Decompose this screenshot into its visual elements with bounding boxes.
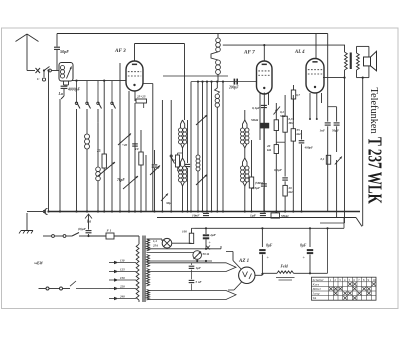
variable capacitor C-ant bbox=[67, 67, 72, 79]
wire AL4 top bbox=[315, 34, 317, 59]
wire spk bottom bbox=[357, 77, 369, 79]
HV loop B bbox=[148, 291, 236, 300]
x mark bbox=[206, 246, 210, 250]
resistor R8 bbox=[275, 103, 277, 120]
wire v112 bbox=[111, 109, 113, 212]
svg-text:T 237 WLK: T 237 WLK bbox=[364, 137, 386, 204]
svg-text:AF 3: AF 3 bbox=[114, 48, 126, 54]
wire grid AF3 bbox=[72, 80, 126, 82]
hum pot 50Ohm bbox=[147, 252, 195, 254]
wire AF3 cathode stub bbox=[143, 83, 153, 85]
wire anode drop bbox=[184, 44, 186, 121]
switch S1 bbox=[76, 81, 78, 102]
resistor 55kOhm-b bbox=[271, 213, 280, 218]
tap 125 bbox=[118, 271, 136, 273]
wire spk top bbox=[357, 45, 369, 47]
switch S5 bbox=[274, 107, 281, 115]
trimmer T4 bbox=[150, 166, 160, 176]
wire AF7 grid bbox=[191, 81, 257, 83]
svg-text:25: 25 bbox=[96, 149, 101, 153]
coil L1 windings bbox=[60, 66, 64, 70]
wire lamp right bbox=[172, 242, 192, 244]
resistor 0.2MOhm bbox=[326, 155, 330, 164]
svg-text:0,7: 0,7 bbox=[296, 93, 300, 97]
svg-text:10: 10 bbox=[372, 278, 376, 282]
svg-text:(8)µF: (8)µF bbox=[78, 227, 87, 231]
wire v162 bbox=[161, 100, 163, 212]
svg-text:200pF: 200pF bbox=[228, 86, 239, 90]
svg-text:Lang: Lang bbox=[312, 292, 320, 296]
wire heater h1 bbox=[147, 248, 222, 250]
resistor 20kOhm bbox=[275, 142, 277, 144]
tap 110 bbox=[118, 262, 136, 264]
wire mid bus bbox=[163, 75, 228, 77]
svg-text:0,1µF: 0,1µF bbox=[274, 168, 283, 172]
wire AF7 pin2 bbox=[263, 93, 265, 212]
capacitor 50uF bbox=[336, 107, 338, 122]
resistor 10kOhm bbox=[140, 130, 142, 152]
capacitor 5nF-b bbox=[189, 279, 195, 281]
wire v198 bbox=[197, 82, 199, 155]
svg-text:Kurz: Kurz bbox=[312, 282, 320, 286]
wire h112 bbox=[328, 106, 337, 108]
svg-text:1µF: 1µF bbox=[196, 266, 202, 270]
trimmer T1 bbox=[98, 162, 115, 176]
svg-text:25A: 25A bbox=[152, 244, 158, 248]
svg-text:La: La bbox=[58, 92, 63, 96]
capacitor 1uF bbox=[260, 212, 266, 214]
wire v153 bbox=[152, 84, 154, 212]
resistor 100Ohm bbox=[189, 233, 193, 243]
wire v48 bbox=[48, 71, 50, 212]
capacitor 4uF bbox=[203, 234, 209, 236]
trimmer T3 bbox=[161, 194, 168, 202]
tube AF3 bbox=[126, 61, 143, 91]
coil can L1 bbox=[59, 63, 73, 82]
wire feld right bbox=[294, 272, 328, 274]
secondary w3 bbox=[147, 269, 150, 287]
field coil Feld bbox=[277, 271, 294, 273]
wire v223 bbox=[222, 82, 224, 212]
switch position table bbox=[312, 277, 377, 300]
svg-text:0,5µF: 0,5µF bbox=[252, 186, 261, 190]
loudspeaker bbox=[364, 57, 371, 66]
output transformer secondary bbox=[357, 53, 360, 70]
svg-text:AF 7: AF 7 bbox=[243, 50, 255, 56]
svg-text:50pF: 50pF bbox=[60, 49, 69, 54]
tube AL4 bbox=[306, 59, 324, 94]
wire right edge bbox=[362, 78, 364, 226]
output transformer core bbox=[350, 53, 352, 70]
resistor R10b bbox=[283, 185, 287, 196]
capacitor 5nF-a bbox=[189, 265, 195, 267]
svg-text:150: 150 bbox=[120, 276, 125, 280]
capacitor 0.1uF-b bbox=[284, 142, 286, 176]
svg-text:1µF: 1µF bbox=[250, 214, 257, 218]
IF coil pair L9 bbox=[243, 158, 245, 166]
svg-text:5 nF: 5 nF bbox=[196, 280, 203, 284]
wire v207 bbox=[206, 82, 208, 212]
wire lamp top bbox=[147, 238, 163, 240]
capacitor 4000pF bbox=[63, 81, 65, 85]
svg-text:110: 110 bbox=[120, 258, 125, 262]
svg-text:0,1µF: 0,1µF bbox=[252, 106, 261, 110]
resistor Rg bbox=[293, 85, 295, 90]
wire v171 bbox=[170, 100, 172, 212]
wire AZ1 anode1 bbox=[233, 261, 242, 270]
svg-text:1,4: 1,4 bbox=[153, 239, 157, 243]
svg-text:8µF: 8µF bbox=[300, 244, 307, 248]
svg-text:10: 10 bbox=[135, 147, 139, 151]
secondary w2 bbox=[147, 255, 150, 268]
svg-text:4000pF: 4000pF bbox=[67, 88, 80, 92]
svg-text:Schalter: Schalter bbox=[313, 278, 325, 282]
node La bbox=[63, 89, 65, 96]
svg-text:kΩ: kΩ bbox=[289, 190, 294, 194]
svg-text:kΩ: kΩ bbox=[267, 148, 272, 152]
wire v76 bbox=[76, 109, 78, 212]
trimmer T2 bbox=[118, 134, 131, 146]
wire B+ rail bbox=[344, 78, 346, 216]
capacitor 8uF-a bbox=[85, 214, 92, 219]
resistor 25kOhm-g bbox=[103, 81, 105, 154]
svg-text:Feld: Feld bbox=[281, 265, 288, 269]
osc coil L6b bbox=[216, 81, 218, 88]
IF coil pair L4 bbox=[181, 120, 183, 128]
svg-text:25+25: 25+25 bbox=[136, 95, 146, 99]
svg-text:50kΩ: 50kΩ bbox=[251, 118, 259, 122]
terminal Ca bbox=[43, 71, 45, 77]
capacitor 8uF-2 bbox=[309, 228, 311, 247]
svg-text:8µF: 8µF bbox=[266, 244, 273, 248]
coil L2 bbox=[86, 109, 88, 134]
trimmer T7 bbox=[335, 157, 342, 165]
resistor R-IF bbox=[178, 152, 183, 154]
svg-text:4µF: 4µF bbox=[209, 233, 217, 237]
wire right loop bbox=[327, 228, 329, 273]
svg-text:kΩ: kΩ bbox=[297, 132, 302, 136]
wire AF7 pin3 bbox=[268, 93, 270, 105]
capacitor 400pF bbox=[299, 140, 305, 142]
svg-text:50µF: 50µF bbox=[332, 129, 340, 133]
capacitor 8uF-1 bbox=[261, 228, 263, 247]
switch S3 bbox=[97, 81, 99, 102]
svg-text:0,1: 0,1 bbox=[172, 158, 176, 162]
trimmer T6 bbox=[196, 175, 207, 186]
heater loop A bbox=[148, 263, 236, 272]
switch arrow bbox=[70, 281, 76, 286]
secondary w4 bbox=[147, 290, 150, 301]
wire AL4 pin3 bbox=[321, 93, 323, 103]
bus chassis bbox=[48, 211, 361, 213]
svg-text:F 1: F 1 bbox=[107, 229, 112, 233]
wire screen link bbox=[323, 77, 345, 79]
tap 240 bbox=[118, 298, 136, 300]
bus 2 bbox=[157, 217, 356, 219]
osc coil L6 bbox=[217, 34, 219, 39]
wire v191 bbox=[190, 82, 192, 212]
svg-text:30µ: 30µ bbox=[165, 201, 171, 205]
capacitor 1nF bbox=[327, 34, 329, 122]
resistor R7 bbox=[251, 140, 253, 177]
svg-text:10nF: 10nF bbox=[192, 214, 200, 218]
svg-text:50 Ω: 50 Ω bbox=[203, 252, 210, 256]
wire osc to output bbox=[223, 44, 345, 46]
dial lamp bbox=[162, 238, 172, 248]
tap 220 bbox=[118, 288, 136, 290]
wire AZ1 cathode bbox=[234, 282, 242, 291]
wire antenna to switch bbox=[27, 70, 35, 72]
capacitor 200pF bbox=[234, 79, 236, 85]
svg-text:1nF: 1nF bbox=[320, 129, 326, 133]
wire AF7 pin1 bbox=[259, 93, 261, 140]
junction dots bus bbox=[47, 210, 49, 212]
potentiometer 50kOhm bbox=[260, 123, 269, 129]
svg-text:400pF: 400pF bbox=[304, 146, 314, 150]
svg-text:AL 4: AL 4 bbox=[294, 50, 305, 55]
svg-text:125: 125 bbox=[120, 267, 125, 271]
wire feld left bbox=[255, 274, 262, 276]
wire AF7 anode bbox=[263, 45, 265, 61]
svg-text:0,1: 0,1 bbox=[321, 157, 325, 161]
capacitor 10nF bbox=[203, 212, 209, 214]
wire v146 bbox=[145, 155, 147, 212]
capacitor 0.5uF bbox=[261, 183, 267, 185]
wire AL4 pin2 bbox=[316, 93, 318, 119]
wire AF3 anode bbox=[134, 44, 136, 62]
svg-text:220: 220 bbox=[119, 284, 125, 288]
capacitor C7 bbox=[187, 120, 189, 163]
capacitor 0.1uF bbox=[261, 104, 267, 106]
fuse F1 bbox=[89, 235, 107, 237]
resistor 0.3MOhm bbox=[284, 95, 286, 116]
ground main bbox=[26, 213, 28, 230]
tap 150 bbox=[118, 279, 136, 281]
svg-text:100: 100 bbox=[182, 230, 187, 234]
wire switch to coil bbox=[51, 70, 59, 72]
wire AF3 pin1 bbox=[128, 91, 130, 212]
capacitor C5 bbox=[154, 150, 156, 164]
wire AL4 pin1 bbox=[309, 93, 311, 119]
svg-text:≈45W: ≈45W bbox=[34, 262, 44, 266]
svg-text:55kΩ: 55kΩ bbox=[281, 214, 289, 218]
tube AF7 bbox=[257, 61, 273, 94]
resistor 55kOhm bbox=[292, 95, 294, 129]
resistor 25kOhm bbox=[134, 91, 136, 101]
wire bus3 bbox=[195, 227, 345, 229]
switch S4 bbox=[111, 81, 113, 102]
mains plug line bbox=[39, 288, 47, 290]
transformer primary bbox=[138, 236, 140, 244]
coil L3 bbox=[97, 109, 99, 123]
switch row 1 bbox=[43, 235, 52, 237]
tube AZ1 bbox=[239, 267, 255, 283]
wire v202 bbox=[202, 82, 204, 212]
svg-text:Mittel: Mittel bbox=[312, 287, 321, 291]
variable capacitor 70pF bbox=[123, 176, 138, 189]
wire heater h2 bbox=[147, 260, 213, 262]
switch S2 bbox=[86, 81, 88, 102]
secondary w1 bbox=[147, 239, 150, 251]
svg-text:240: 240 bbox=[119, 294, 125, 298]
svg-text:Telefunken: Telefunken bbox=[368, 88, 379, 134]
wire top bus bbox=[57, 33, 328, 35]
svg-text:AZ 1: AZ 1 bbox=[238, 259, 249, 264]
wire v120 bbox=[119, 63, 121, 212]
IF coil pair L5 bbox=[181, 158, 183, 166]
capacitor 50pF bbox=[56, 34, 58, 47]
capacitor C-k bbox=[132, 143, 138, 145]
trimmer T5 bbox=[196, 115, 207, 125]
svg-text:+20: +20 bbox=[122, 143, 128, 147]
switch S-ant bbox=[36, 68, 41, 73]
svg-text:70pF: 70pF bbox=[117, 178, 125, 182]
output transformer primary bbox=[345, 52, 348, 70]
transformer core bbox=[142, 236, 144, 303]
wire h144 bbox=[276, 141, 285, 143]
antenna bbox=[16, 34, 28, 42]
wire v60 bbox=[59, 99, 61, 212]
wire v211 bbox=[211, 82, 213, 212]
IF coil pair L8 bbox=[244, 110, 246, 120]
